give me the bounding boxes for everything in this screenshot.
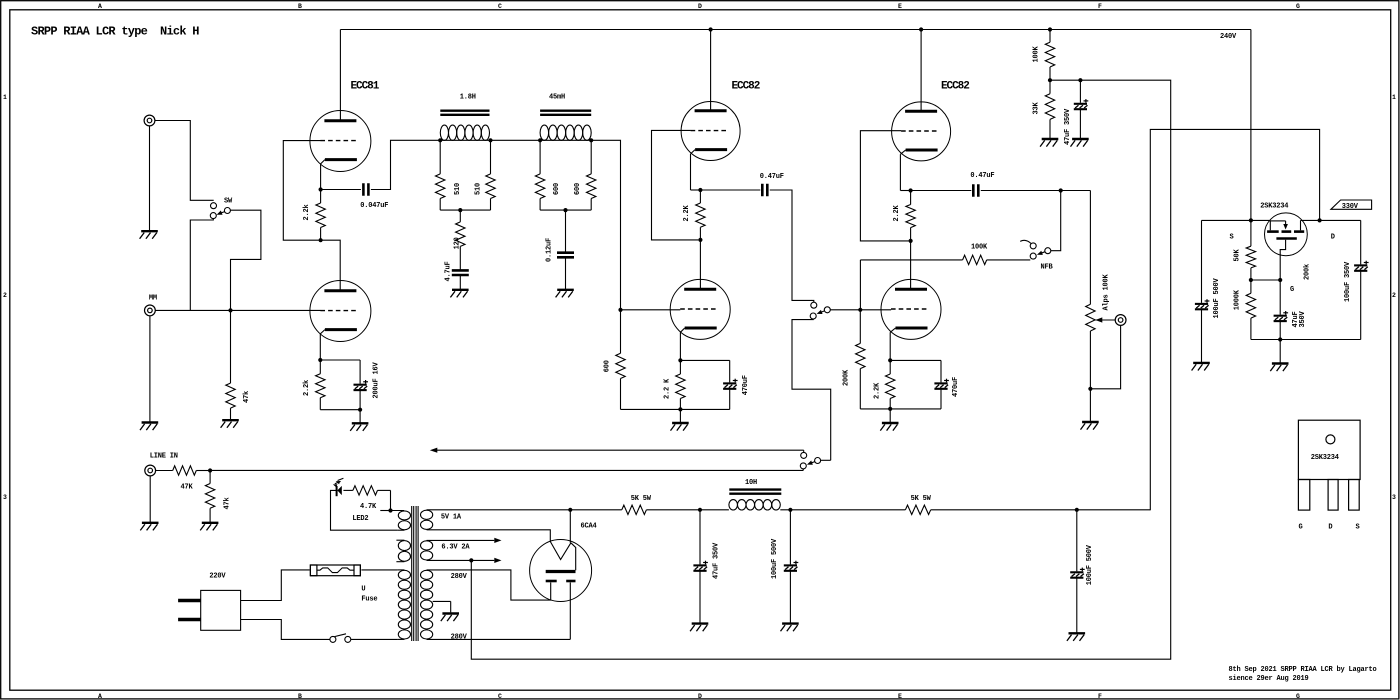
resistor 510 left	[439, 140, 441, 174]
wire LED loop left	[331, 490, 398, 530]
resistor 50K	[1250, 220, 1252, 246]
ground ECC81 cathode RC	[359, 410, 361, 424]
svg-text:F: F	[1098, 693, 1102, 700]
resistor 5K 5W second	[905, 505, 930, 514]
tube ECC82-2 lower triode	[881, 279, 941, 339]
node 45mH tap	[563, 208, 567, 212]
svg-text:47K: 47K	[181, 484, 194, 492]
ground ECC82-1 cathode	[679, 409, 681, 423]
resistor 1000K	[1250, 280, 1252, 293]
wire coupling cap to LCR input	[371, 140, 440, 189]
resistor 200K (grid leak)	[859, 310, 861, 344]
ground center tap	[442, 612, 459, 614]
node 5V / B+ takeoff	[568, 508, 572, 512]
transformer secondary 6.3V winding	[421, 541, 433, 550]
svg-text:280V: 280V	[451, 634, 468, 642]
resistor 600 left	[539, 140, 541, 174]
svg-text:B: B	[298, 3, 302, 10]
node divider	[1048, 78, 1052, 82]
node bottom rail	[1278, 337, 1282, 341]
svg-text:E: E	[898, 693, 902, 700]
wire 470uF leads 1	[729, 360, 731, 382]
wire SW lower contact to MM line	[190, 219, 213, 311]
tube ECC82-1 upper triode	[681, 102, 740, 161]
wire LCR output to grid node	[591, 140, 620, 310]
wire ECC82-2 feedback grid line	[860, 131, 908, 241]
node 1.8H left	[438, 138, 442, 142]
svg-text:240V: 240V	[1220, 33, 1237, 41]
svg-text:5K 5W: 5K 5W	[631, 495, 652, 503]
resistor 510 right	[490, 140, 492, 174]
svg-text:470uF: 470uF	[952, 377, 960, 397]
svg-text:S: S	[1230, 234, 1234, 242]
svg-text:E: E	[898, 3, 902, 10]
svg-text:100uF 350V: 100uF 350V	[1344, 261, 1352, 302]
node junction rail / 100K divider	[1048, 27, 1052, 31]
node filter 1	[698, 508, 702, 512]
wire 600 to cathode rail	[621, 408, 681, 410]
svg-text:47k: 47k	[243, 391, 251, 403]
wire selector lower contact path	[792, 319, 831, 460]
transformer secondary 5V winding	[421, 510, 433, 519]
switch line lower contact	[800, 463, 806, 469]
node pot bottom	[1088, 387, 1092, 391]
svg-text:Alps 100K: Alps 100K	[1103, 273, 1111, 310]
node line-in	[208, 468, 212, 472]
wire 0.12uF leads	[565, 210, 567, 253]
wire ECC81 lower cathode lead	[319, 334, 321, 360]
node 1.8H right	[488, 138, 492, 142]
svg-text:5V 1A: 5V 1A	[441, 514, 462, 522]
wire mosfet bottom rail	[1251, 339, 1361, 341]
svg-text:SW: SW	[224, 198, 233, 206]
svg-text:D: D	[1328, 524, 1332, 532]
switch NFB upper contact	[1030, 243, 1036, 249]
wire NFB arm to output node	[1051, 191, 1061, 251]
ground line shunt	[202, 522, 219, 524]
wire MM line to ECC81 lower grid	[155, 309, 320, 311]
wire ECC82-2 lower grid lead	[860, 309, 891, 311]
capacitor 47uF 350V (filter1)	[693, 564, 706, 566]
wire 240V to source node	[1250, 30, 1252, 221]
inductor 1.8H core	[440, 109, 489, 111]
node RC bottom 1	[678, 407, 682, 411]
capacitor 4.7uF	[452, 269, 469, 272]
ground MM load	[222, 419, 239, 421]
node LCR output / ECC82-1 lower grid	[618, 308, 622, 312]
wire 1.8H bottom rail	[440, 209, 490, 211]
svg-text:280V: 280V	[451, 573, 468, 581]
svg-text:SRPP RIAA LCR type Nick H: SRPP RIAA LCR type Nick H	[31, 25, 199, 39]
wire 1.8H to 45mH	[491, 139, 541, 141]
resistor 100K divider	[1049, 30, 1051, 43]
wire plug lower to switch	[241, 620, 330, 640]
svg-text:2SK3234: 2SK3234	[1260, 203, 1288, 211]
svg-text:D: D	[698, 3, 702, 10]
svg-text:220V: 220V	[209, 573, 226, 581]
svg-text:G: G	[1296, 3, 1300, 10]
wire 240V top rail	[340, 29, 1251, 31]
node MM line junction	[228, 308, 232, 312]
wire divider to heater line	[471, 80, 1170, 659]
wire source cap lead	[1201, 220, 1203, 303]
svg-text:600: 600	[553, 183, 561, 195]
node drain	[1318, 218, 1322, 222]
resistor 2.2K (ECC82-2 lower cathode)	[889, 360, 891, 374]
ground filter1	[692, 622, 709, 624]
capacitor 0.47uF (stage1)	[761, 184, 764, 197]
wire selector arm to grid node	[830, 309, 860, 311]
node ECC81 lower cathode	[318, 358, 322, 362]
node ECC82-2 SRPP junction	[909, 239, 913, 243]
capacitor 470uF (stage2)	[934, 382, 947, 384]
node ECC82-2 lower cathode	[888, 358, 892, 362]
wire gate cap leads	[1279, 280, 1281, 315]
resistor 2.2 K (ECC82-1 lower cathode)	[679, 360, 681, 374]
switch line arm	[815, 458, 821, 464]
node output after cap	[1059, 188, 1063, 192]
node ECC82-1 lower cathode	[678, 358, 682, 362]
ground line-in jack	[149, 476, 151, 523]
wire line arm up	[821, 459, 831, 461]
svg-text:LINE IN: LINE IN	[150, 453, 178, 461]
svg-text:100K: 100K	[971, 244, 988, 252]
wire filter2 cap leads	[789, 510, 791, 565]
wire 6.3V bottom lead	[427, 559, 495, 561]
svg-text:10H: 10H	[745, 479, 757, 487]
svg-text:Fuse: Fuse	[361, 596, 377, 604]
wire ECC82-1 feedback grid line	[652, 130, 699, 240]
svg-text:B: B	[298, 693, 302, 700]
wire right plate lead	[569, 583, 571, 640]
wire cap leads	[359, 360, 361, 384]
pot wiper arrow	[1095, 317, 1102, 322]
inductor 1.8H winding	[440, 125, 448, 140]
ground 4.7uF	[452, 289, 469, 291]
ground J1	[149, 126, 151, 231]
svg-text:NFB: NFB	[1041, 264, 1054, 272]
wire drain cap leads	[1360, 220, 1362, 264]
svg-text:100uF 500V: 100uF 500V	[1086, 544, 1094, 585]
switch selector upper contact	[811, 302, 817, 308]
svg-text:1: 1	[3, 94, 7, 101]
wire line arrow feed	[436, 449, 804, 451]
switch line upper contact	[801, 452, 807, 458]
switch SW upper contact	[211, 203, 217, 209]
svg-text:F: F	[1098, 3, 1102, 10]
resistor 2.2k (ECC81 lower cathode)	[319, 360, 321, 374]
svg-text:G: G	[1298, 524, 1302, 532]
wire ECC82-1 upper cathode lead	[690, 154, 692, 190]
svg-text:330V: 330V	[1342, 203, 1359, 211]
wire 6.3V top lead	[427, 539, 495, 541]
svg-text:ECC82: ECC82	[941, 81, 969, 93]
wire jack down to pot bottom	[1090, 326, 1120, 389]
output jack	[1115, 315, 1126, 326]
wire to coupling cap 2	[700, 189, 760, 191]
svg-text:0.47uF: 0.47uF	[970, 172, 994, 180]
svg-text:C: C	[498, 3, 502, 10]
node LED tap	[388, 508, 392, 512]
svg-text:200K: 200K	[843, 369, 851, 386]
resistor 2.2K (ECC82-1 upper cathode)	[699, 192, 701, 204]
wire 50K to gate line	[1251, 279, 1280, 281]
wire cathode to coupling cap	[321, 189, 361, 191]
svg-text:47uF 350V: 47uF 350V	[712, 542, 720, 579]
svg-text:2: 2	[3, 292, 7, 299]
wire source node left to cap	[1202, 219, 1251, 221]
wire cathode RC top 2	[890, 359, 941, 361]
svg-text:2.2K: 2.2K	[893, 204, 901, 221]
svg-text:1000K: 1000K	[1234, 289, 1242, 310]
resistor 100K NFB	[860, 259, 962, 261]
ground bias cap	[1072, 138, 1089, 140]
svg-text:100uF 500V: 100uF 500V	[771, 538, 779, 579]
wire drain lead	[1301, 219, 1361, 221]
wire LCR rail 2	[540, 139, 591, 141]
wire coupling cap 2 out	[770, 190, 811, 300]
wire source lead	[1251, 219, 1270, 221]
inductor 10H core	[729, 488, 781, 490]
ground 0.12uF	[557, 289, 574, 291]
node 6.3V heater bias	[469, 558, 473, 562]
switch NFB lower contact	[1030, 253, 1036, 259]
wire bias cap leads	[1079, 80, 1081, 103]
svg-text:47uF 350V: 47uF 350V	[1064, 108, 1072, 145]
arrow head line feed	[430, 448, 438, 453]
wire fuse to primary	[361, 569, 397, 571]
resistor 47k line shunt	[209, 471, 211, 484]
transformer core	[411, 506, 413, 641]
node ECC81 SRPP junction	[319, 238, 323, 242]
wire cathode RC top	[320, 359, 360, 361]
svg-text:C: C	[498, 693, 502, 700]
ground mosfet	[1279, 340, 1281, 364]
transformer primary winding W2 (spare)	[398, 541, 410, 551]
wire 4.7uF leads	[459, 260, 461, 270]
package drawing 2SK3234	[1298, 420, 1360, 479]
wire SRPP junction to lower plate 2	[910, 241, 912, 289]
wire ECC81 upper cathode lead	[320, 164, 322, 190]
svg-text:sience 29er Aug 2019: sience 29er Aug 2019	[1229, 675, 1309, 683]
svg-text:510: 510	[454, 183, 462, 195]
switch NFB arm	[1045, 248, 1051, 254]
node 50K bottom	[1249, 278, 1253, 282]
fuse	[310, 565, 360, 576]
svg-text:0.047uF: 0.047uF	[360, 202, 388, 210]
svg-text:600: 600	[574, 183, 582, 195]
wire cathode RC bottom rail 1	[680, 408, 729, 410]
svg-text:3: 3	[1392, 494, 1396, 501]
node ECC81 upper cathode	[319, 187, 323, 191]
svg-text:0.12uF: 0.12uF	[546, 238, 554, 262]
wire ECC81 feedback grid line	[283, 141, 320, 241]
svg-text:3: 3	[3, 494, 7, 501]
wire cathode RC bottom rail 2	[860, 408, 941, 410]
svg-text:U: U	[361, 586, 365, 594]
svg-text:2.2K: 2.2K	[683, 204, 691, 221]
node 45mH right	[589, 138, 593, 142]
ground filter2	[782, 622, 799, 624]
wire LCR rail 1	[440, 139, 490, 141]
svg-text:100uF 500V: 100uF 500V	[1213, 277, 1221, 318]
wire to choke	[700, 509, 729, 511]
resistor 600 right	[590, 140, 592, 174]
input jack J1 (MC)	[144, 115, 155, 126]
wire B+ riser	[1150, 129, 1319, 510]
svg-text:1.8H: 1.8H	[460, 94, 476, 102]
switch SW arm	[224, 208, 230, 214]
wire cathode RC top 1	[680, 359, 729, 361]
wire ECC82-1 lower cathode lead	[679, 332, 681, 360]
svg-text:200uF 16V: 200uF 16V	[373, 361, 381, 398]
wire winding W1 top lead	[380, 510, 390, 512]
resistor 2.2K (ECC82-2 upper cathode)	[910, 192, 912, 205]
capacitor 0.047uF coupling	[362, 183, 365, 196]
svg-text:100K: 100K	[1033, 45, 1041, 62]
wire ECC82-2 upper cathode lead	[899, 154, 901, 190]
svg-text:6CA4: 6CA4	[581, 523, 597, 531]
node ECC82-1 upper cathode	[698, 188, 702, 192]
wire switch to primary	[351, 638, 398, 640]
capacitor 100uF 500V (filter3)	[1070, 571, 1083, 573]
node junction rail / ECC82-2 plate	[919, 27, 923, 31]
capacitor 470uF (stage1)	[723, 382, 736, 384]
svg-text:A: A	[98, 3, 102, 10]
capacitor 100uF 350V (drain)	[1354, 264, 1367, 266]
capacitor 0.12uF	[557, 251, 574, 254]
switch selector arm	[824, 307, 830, 313]
LED LED2	[337, 486, 342, 495]
wire choke out	[780, 509, 905, 511]
svg-text:470uF: 470uF	[742, 375, 750, 395]
input jack J2 (MM)	[145, 305, 156, 316]
resistor 47K line	[156, 470, 173, 472]
resistor 5K 5W first	[622, 505, 647, 514]
node ECC82-2 lower grid	[858, 308, 862, 312]
wire 5V top lead	[427, 509, 571, 511]
svg-text:8th Sep 2021 SRPP RIAA LCR by: 8th Sep 2021 SRPP RIAA LCR by Lagarto	[1229, 666, 1377, 674]
wire line-in feed	[210, 469, 803, 471]
wire 4.7K to winding tap	[391, 490, 405, 510]
resistor 600 termination	[620, 310, 622, 353]
resistor 4.7K LED	[343, 489, 353, 491]
tube ECC81 upper triode	[310, 111, 371, 172]
wire output to pot	[1089, 191, 1091, 305]
node 45mH left	[538, 138, 542, 142]
capacitor 200uF 16V	[354, 384, 367, 386]
svg-text:G: G	[1290, 286, 1294, 294]
svg-text:2: 2	[1392, 292, 1396, 299]
wire 5V bottom lead	[427, 530, 551, 542]
resistor 47k (MM load)	[230, 310, 232, 383]
tube ECC82-2 upper triode	[892, 102, 951, 161]
wire pot bottom	[1089, 331, 1091, 389]
flag 330V	[1331, 200, 1372, 209]
svg-text:120: 120	[454, 237, 462, 249]
svg-text:G: G	[1296, 693, 1300, 700]
wire 5V top to filament	[569, 510, 571, 543]
svg-text:6.3V 2A: 6.3V 2A	[441, 544, 470, 552]
svg-text:ECC81: ECC81	[351, 81, 380, 93]
tube ECC81 lower triode	[310, 281, 371, 342]
svg-text:2SK3234: 2SK3234	[1311, 454, 1339, 462]
svg-text:50K: 50K	[1234, 248, 1242, 261]
svg-text:4.7uF: 4.7uF	[444, 261, 452, 281]
wire J1 to SW upper contact	[155, 121, 214, 201]
switch selector lower contact	[810, 313, 816, 319]
wire 45mH bottom rail	[540, 209, 591, 211]
wire ECC82-1 lower grid lead	[621, 309, 681, 311]
wire B+ rail 1	[570, 509, 622, 511]
transformer primary winding W3 (220V)	[398, 570, 410, 579]
wire cathode RC bottom rail	[320, 409, 360, 411]
svg-text:LED2: LED2	[352, 515, 368, 523]
svg-text:A: A	[98, 693, 102, 700]
ground source cap	[1193, 362, 1210, 364]
wire SRPP junction to lower plate	[321, 240, 341, 290]
svg-text:MM: MM	[149, 295, 157, 303]
node gate line	[1278, 278, 1282, 282]
svg-text:33K: 33K	[1033, 101, 1041, 114]
svg-text:S: S	[1355, 524, 1359, 532]
capacitor 100uF 500V (source)	[1195, 303, 1208, 305]
wire filter3 cap leads	[1076, 510, 1078, 572]
switch mains	[330, 636, 336, 642]
resistor 2.2k (ECC81 upper cathode)	[320, 191, 322, 203]
node ECC82-1 SRPP junction	[698, 238, 702, 242]
svg-text:D: D	[1331, 234, 1335, 242]
wire to B+ riser	[1077, 509, 1151, 511]
wire output node	[981, 190, 1091, 192]
transistor 2SK3234 MOSFET	[1265, 213, 1308, 256]
inductor 45mH winding	[540, 125, 549, 140]
inductor 10H winding	[729, 500, 738, 510]
wire HV top lead to left plate	[427, 570, 551, 600]
svg-text:2.2k: 2.2k	[303, 204, 311, 220]
resistor 120	[459, 210, 461, 222]
transformer primary winding W1 (LED)	[398, 511, 410, 520]
node divider cap	[1078, 78, 1082, 82]
ground J2	[149, 316, 151, 423]
svg-text:47k: 47k	[224, 497, 232, 509]
ground filter3	[1069, 632, 1086, 634]
ground pot	[1089, 389, 1091, 422]
wire 470uF leads 2	[940, 360, 942, 382]
svg-text:350V: 350V	[1299, 310, 1307, 327]
wire filter1 cap leads	[699, 510, 701, 565]
wire HV center tap	[433, 600, 451, 602]
svg-text:510: 510	[475, 183, 483, 195]
svg-text:2.2 K: 2.2 K	[664, 378, 672, 399]
node junction rail / ECC82-1 plate	[709, 27, 713, 31]
wire ECC82-2 lower cathode lead	[889, 332, 891, 360]
tube 6CA4 rectifier	[530, 540, 592, 602]
node RC bottom 2	[888, 407, 892, 411]
potentiometer Alps 100K	[1086, 304, 1095, 331]
node 1.8H tap	[458, 208, 462, 212]
wire ECC82-1 upper plate lead	[710, 30, 712, 111]
wire to coupling cap 3	[911, 190, 972, 192]
wire SW arm to MM node	[231, 210, 261, 310]
resistor 33K divider	[1049, 80, 1051, 94]
svg-text:600: 600	[603, 360, 611, 372]
mains plug	[201, 590, 241, 630]
svg-text:ECC82: ECC82	[732, 81, 760, 93]
node filter 2	[788, 508, 792, 512]
capacitor 100uF 500V (filter2)	[784, 564, 797, 566]
node filter 3	[1075, 508, 1079, 512]
